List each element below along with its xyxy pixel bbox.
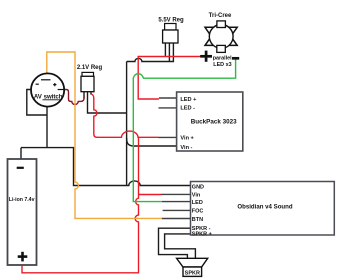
- svg-text:Obsidian v4 Sound: Obsidian v4 Sound: [237, 203, 292, 210]
- svg-text:Vin +: Vin +: [180, 136, 194, 142]
- svg-text:Vin: Vin: [192, 192, 201, 198]
- svg-text:LED x3: LED x3: [213, 62, 231, 68]
- svg-text:Li-ion 7.4v: Li-ion 7.4v: [9, 197, 35, 203]
- svg-text:5.5V Reg: 5.5V Reg: [158, 18, 184, 24]
- svg-text:BuckPack 3023: BuckPack 3023: [191, 119, 237, 126]
- svg-text:LED: LED: [192, 200, 203, 206]
- svg-text:LED +: LED +: [180, 97, 197, 103]
- svg-text:Vin -: Vin -: [180, 145, 192, 151]
- svg-text:2.1V Reg: 2.1V Reg: [77, 65, 103, 71]
- svg-text:FOC: FOC: [192, 209, 204, 215]
- svg-text:AV switch: AV switch: [34, 93, 63, 100]
- svg-text:GND: GND: [192, 184, 204, 190]
- svg-text:Tri-Cree: Tri-Cree: [209, 13, 232, 19]
- svg-text:SPKR: SPKR: [185, 271, 200, 277]
- svg-text:parallel: parallel: [213, 56, 232, 62]
- svg-text:BTN: BTN: [192, 217, 203, 223]
- svg-text:LED -: LED -: [180, 105, 195, 111]
- svg-text:SPKR +: SPKR +: [192, 232, 212, 238]
